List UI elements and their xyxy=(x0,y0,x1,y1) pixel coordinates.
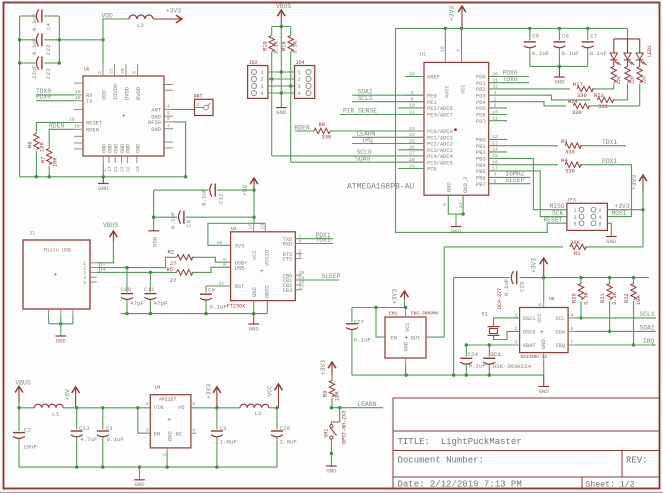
wire C25 gnd side down xyxy=(453,278,455,376)
resistor R24 xyxy=(573,103,591,108)
power VBUS arrow top xyxy=(277,10,285,16)
svg-text:TDX1: TDX1 xyxy=(602,139,617,146)
capacitor C27 xyxy=(351,308,353,323)
svg-text:TX: TX xyxy=(86,99,93,105)
capacitor C10 xyxy=(126,268,128,292)
svg-text:23: 23 xyxy=(409,126,415,132)
svg-text:VBUS: VBUS xyxy=(16,379,31,386)
wire U5 GND pin to rail xyxy=(102,163,104,177)
resistor R1 xyxy=(570,244,588,249)
svg-text:3V3: 3V3 xyxy=(235,244,245,250)
svg-text:3: 3 xyxy=(298,84,301,90)
wire U4 EN tie xyxy=(138,408,151,433)
svg-text:REV:: REV: xyxy=(626,456,648,466)
svg-text:7: 7 xyxy=(571,340,574,346)
svg-text:+: + xyxy=(405,335,409,342)
svg-text:2: 2 xyxy=(261,77,264,83)
svg-text:EN: EN xyxy=(391,335,397,341)
svg-text:C3: C3 xyxy=(220,425,227,432)
window edge line xyxy=(0,491,663,493)
resistor R4 xyxy=(565,162,583,167)
wire EN1 vcc top xyxy=(405,299,406,308)
wire 16MHZ net xyxy=(489,176,531,178)
svg-text:GND: GND xyxy=(276,109,287,116)
svg-text:PB1: PB1 xyxy=(476,144,486,150)
wire cap row 1 xyxy=(20,15,36,17)
wire SDA0 net from R19 to U1 xyxy=(271,52,273,156)
resistor R23 xyxy=(597,97,615,102)
svg-text:Sheet: 1/2: Sheet: 1/2 xyxy=(586,479,635,489)
wire SDA1 net xyxy=(352,94,424,96)
wire PB5 to JP3 SCK xyxy=(489,171,567,217)
capacitor C11 xyxy=(149,272,151,292)
svg-text:3: 3 xyxy=(515,340,518,346)
U6 pins xyxy=(513,317,520,319)
svg-text:23: 23 xyxy=(120,166,126,172)
svg-text:PD1: PD1 xyxy=(476,81,486,87)
wire R2 to U2 xyxy=(192,257,231,262)
svg-text:C2: C2 xyxy=(24,427,31,434)
svg-text:32: 32 xyxy=(125,166,131,172)
svg-text:GND: GND xyxy=(451,228,462,235)
svg-text:R18: R18 xyxy=(282,41,288,51)
svg-text:4.7uF: 4.7uF xyxy=(80,436,98,443)
wire cap row 2 xyxy=(20,39,36,41)
svg-text:C4: C4 xyxy=(45,23,52,30)
svg-text:L3: L3 xyxy=(255,410,262,417)
svg-text:VCCIO: VCCIO xyxy=(264,250,270,266)
svg-text:SLEEP: SLEEP xyxy=(506,177,525,184)
svg-text:VBAT: VBAT xyxy=(523,343,537,349)
resistor R9 xyxy=(329,380,334,396)
svg-text:22uF: 22uF xyxy=(31,65,38,79)
svg-text:6: 6 xyxy=(167,116,170,122)
svg-text:GND: GND xyxy=(151,127,161,133)
svg-text:0.1uF: 0.1uF xyxy=(590,50,608,57)
svg-text:PE3/ADC7: PE3/ADC7 xyxy=(427,113,453,119)
wire U2 gnd stubs xyxy=(253,301,255,314)
wire PB4 to R4 xyxy=(489,164,558,166)
U5 right pin stubs xyxy=(164,83,173,85)
svg-text:PB2: PB2 xyxy=(476,150,486,156)
svg-text:+3V3: +3V3 xyxy=(392,289,399,304)
svg-text:PD6: PD6 xyxy=(476,113,486,119)
wire J1 VBUS xyxy=(97,241,114,263)
svg-text:4: 4 xyxy=(298,91,301,97)
wire +3V3 to LED block xyxy=(627,28,629,39)
svg-text:GND: GND xyxy=(107,144,113,153)
svg-text:GND: GND xyxy=(134,481,145,488)
svg-text:7: 7 xyxy=(167,123,170,129)
wire ANT net xyxy=(173,108,195,110)
power +3V3 arrow switch xyxy=(328,362,336,368)
svg-text:AP2127: AP2127 xyxy=(159,396,176,402)
ground symbol C5-C7 xyxy=(558,66,560,76)
svg-text:PD4: PD4 xyxy=(476,100,486,106)
svg-text:330: 330 xyxy=(322,135,332,141)
U1 left pin stubs and names xyxy=(405,76,424,78)
title block xyxy=(393,398,660,489)
svg-text:SCL1: SCL1 xyxy=(640,311,655,318)
svg-text:1.0uF: 1.0uF xyxy=(280,439,298,446)
wire R23 to LED column xyxy=(612,99,627,101)
svg-text:GND: GND xyxy=(249,325,260,332)
inductor L2 xyxy=(129,15,153,19)
power +3V3 arrow above U1 xyxy=(458,6,466,12)
svg-text:5: 5 xyxy=(442,203,448,206)
wire PD4 to R24 xyxy=(489,102,566,106)
svg-text:3: 3 xyxy=(146,428,149,434)
svg-text:RDEN: RDEN xyxy=(49,122,64,129)
resistor R8 xyxy=(314,128,332,133)
svg-text:IRQ: IRQ xyxy=(643,338,655,345)
svg-text:DSK-3R3H224: DSK-3R3H224 xyxy=(493,363,532,370)
svg-text:Document Number:: Document Number: xyxy=(398,456,484,466)
svg-text:R23: R23 xyxy=(594,93,604,99)
capacitor C4 xyxy=(37,10,39,23)
svg-text:330: 330 xyxy=(572,110,582,116)
wire PIR_SENSE net xyxy=(340,114,424,116)
svg-text:+3V3: +3V3 xyxy=(320,360,327,375)
svg-text:R22: R22 xyxy=(624,293,630,303)
ground symbol C8 C12 xyxy=(148,230,159,232)
svg-text:U5: U5 xyxy=(84,67,90,73)
svg-text:RVDD: RVDD xyxy=(136,87,142,100)
capacitor C6 xyxy=(558,27,561,30)
svg-text:AVCC: AVCC xyxy=(445,85,451,98)
svg-text:+3V3: +3V3 xyxy=(166,8,181,15)
wire +5V column xyxy=(253,190,255,224)
wire header row 2 xyxy=(268,78,295,80)
svg-text:PD5: PD5 xyxy=(476,106,486,112)
wire PD3 to R23 xyxy=(489,95,591,100)
svg-text:16: 16 xyxy=(75,95,81,101)
wire J1 gnd rail xyxy=(49,323,73,325)
svg-text:+3V3: +3V3 xyxy=(449,6,456,21)
wire D- to R2 xyxy=(97,257,177,267)
wire U1 AREF stub xyxy=(405,76,424,78)
svg-text:R9: R9 xyxy=(323,391,329,397)
svg-text:RF50: RF50 xyxy=(148,120,161,126)
wire VBAT row xyxy=(466,344,512,346)
svg-text:0.1uF: 0.1uF xyxy=(107,436,125,443)
wire U1 PD5 stub xyxy=(489,107,507,109)
svg-text:DCX-327: DCX-327 xyxy=(497,288,503,309)
svg-text:C7: C7 xyxy=(590,33,597,40)
svg-text:OSC0: OSC0 xyxy=(523,330,536,336)
wire SCL0 net from R18 to U1 xyxy=(290,52,292,162)
wire TDX0 xyxy=(36,94,74,96)
svg-text:ENC-3009MV: ENC-3009MV xyxy=(411,311,439,317)
wire SLEEP net U2 xyxy=(295,279,339,281)
wire U2 RTS stub xyxy=(295,253,302,255)
wire L3 to VCC xyxy=(269,407,279,409)
svg-text:3.3K: 3.3K xyxy=(274,40,280,54)
svg-text:0.1uF: 0.1uF xyxy=(31,37,38,55)
LED D2 xyxy=(624,53,631,60)
wire header row 1 xyxy=(268,71,295,73)
svg-text:1.0uF: 1.0uF xyxy=(220,439,238,446)
svg-text:+3V3: +3V3 xyxy=(531,258,538,273)
svg-text:1: 1 xyxy=(197,102,200,108)
svg-text:0.1uF: 0.1uF xyxy=(31,13,38,31)
wire TDX0 net xyxy=(489,82,529,84)
wire U1 PD6 stub xyxy=(489,114,507,116)
wire U4 NC stub xyxy=(191,432,197,434)
capacitor C5 xyxy=(528,27,531,30)
wire header row 3 xyxy=(268,85,295,87)
capacitor C22 xyxy=(37,33,39,46)
svg-text:VCC: VCC xyxy=(405,322,411,332)
wire C8 C12 gnd column xyxy=(153,190,155,230)
svg-text:220: 220 xyxy=(617,76,622,84)
wire U1 AVCC drop xyxy=(444,28,446,54)
svg-text:3.3K: 3.3K xyxy=(584,291,590,305)
svg-text:SC1: SC1 xyxy=(490,351,501,358)
resistor R17 xyxy=(577,86,595,91)
svg-text:L1: L1 xyxy=(52,411,59,418)
svg-text:PE1: PE1 xyxy=(427,100,437,106)
LED1 bracket xyxy=(614,38,640,40)
svg-text:8: 8 xyxy=(132,71,138,74)
svg-text:R1: R1 xyxy=(574,251,580,257)
svg-text:PD7: PD7 xyxy=(476,119,486,125)
resistor R3 xyxy=(565,143,583,148)
wire VDD xyxy=(102,18,129,20)
svg-text:3.3K: 3.3K xyxy=(293,40,299,54)
power VBUS arrow J1 xyxy=(110,231,118,237)
svg-text:NC: NC xyxy=(176,432,182,438)
svg-text:27: 27 xyxy=(170,278,176,284)
wire +3V3 feed from EN1 OUT xyxy=(443,247,445,337)
svg-text:PC6: PC6 xyxy=(427,167,437,173)
svg-text:1: 1 xyxy=(261,70,264,76)
wire U1 PD7 stub xyxy=(489,120,507,122)
svg-text:C8: C8 xyxy=(186,220,193,227)
svg-text:R2: R2 xyxy=(168,250,174,256)
svg-text:220: 220 xyxy=(643,76,648,84)
svg-text:330: 330 xyxy=(565,150,575,156)
wire JP3 +3V3 pin2 xyxy=(607,209,643,211)
resistor below LED D1 xyxy=(613,60,615,67)
wire ground rail RF section xyxy=(20,176,186,178)
svg-text:C1: C1 xyxy=(106,425,113,432)
power VBUS arrow power row xyxy=(15,386,23,392)
svg-text:10K: 10K xyxy=(335,391,341,401)
wire R21 to SDA row xyxy=(609,301,611,331)
svg-text:C9: C9 xyxy=(208,287,215,294)
svg-text:GND: GND xyxy=(326,467,337,474)
svg-text:Y1: Y1 xyxy=(482,311,488,317)
power +3V3 arrow RTC xyxy=(540,258,548,264)
wire R4 to PDX1 label and JP3 MOSI xyxy=(580,165,632,217)
wire SLEEP net xyxy=(489,183,531,185)
svg-text:R3: R3 xyxy=(561,139,567,145)
U1 ground pins xyxy=(448,195,463,214)
ic U6 box xyxy=(520,308,569,353)
wire +3V3 rail mid xyxy=(454,277,510,279)
svg-text:3: 3 xyxy=(574,215,577,221)
svg-text:27: 27 xyxy=(170,261,176,267)
wire R7 to ground rail xyxy=(48,166,50,177)
wire R8 to U1 PC0 xyxy=(330,130,424,132)
svg-text:5: 5 xyxy=(167,110,170,116)
svg-text:28: 28 xyxy=(69,117,75,123)
svg-text:R17: R17 xyxy=(573,82,583,88)
capacitor C13 xyxy=(76,408,78,430)
svg-text:5: 5 xyxy=(574,221,577,227)
svg-text:10K: 10K xyxy=(636,295,642,305)
wire header row 4 xyxy=(268,92,295,94)
wire +3V3 top rail xyxy=(396,27,628,29)
ground symbol RF section xyxy=(102,177,104,183)
wire IRQ net left xyxy=(352,143,424,145)
ground symbol RTC rail xyxy=(543,375,545,386)
svg-text:PE2/ADC6: PE2/ADC6 xyxy=(427,106,453,112)
svg-text:GND2: GND2 xyxy=(264,285,270,298)
svg-text:C6: C6 xyxy=(562,33,569,40)
wire U2 CB2 stub xyxy=(295,284,302,286)
svg-text:EN: EN xyxy=(154,432,160,438)
wire RESET net from +3V3 rail side xyxy=(396,28,567,232)
svg-text:C5: C5 xyxy=(532,33,539,40)
svg-text:PE0: PE0 xyxy=(427,93,437,99)
svg-text:DPST-NO-2X3: DPST-NO-2X3 xyxy=(342,411,348,444)
svg-text:VO: VO xyxy=(178,405,184,411)
capacitor C23 xyxy=(37,57,39,70)
wire R3 to TDX1 label xyxy=(580,145,626,147)
svg-text:8: 8 xyxy=(223,262,226,268)
wire LEARN net left xyxy=(352,136,424,138)
resistor R18 xyxy=(288,35,293,51)
capacitor C3 xyxy=(216,408,218,430)
wire LED column 3 down xyxy=(639,84,641,106)
resistor R22 xyxy=(632,276,635,279)
svg-text:GND: GND xyxy=(554,78,565,85)
wire power bottom rail xyxy=(19,466,277,468)
svg-text:SDA0: SDA0 xyxy=(355,156,370,163)
svg-text:C23: C23 xyxy=(45,68,52,79)
svg-text:+: + xyxy=(54,272,58,279)
svg-text:0.1uF: 0.1uF xyxy=(503,278,510,296)
svg-text:L2: L2 xyxy=(137,22,144,29)
svg-text:4: 4 xyxy=(571,313,574,319)
wire header gnd stem xyxy=(280,93,282,108)
wire R19 column top xyxy=(271,27,273,36)
svg-text:10K: 10K xyxy=(53,157,59,167)
svg-text:R6: R6 xyxy=(28,142,34,148)
svg-text:R5: R5 xyxy=(167,267,173,273)
svg-text:33: 33 xyxy=(135,166,141,172)
wire +3V3 to R9 xyxy=(331,375,333,381)
svg-text:PC2/ADC2: PC2/ADC2 xyxy=(427,142,453,148)
svg-text:0.1uF: 0.1uF xyxy=(561,50,579,57)
wire R1 to +3V3 column xyxy=(585,246,643,248)
power +3V3 arrow right xyxy=(639,175,647,181)
svg-text:+3V3: +3V3 xyxy=(206,384,213,399)
svg-text:LEARN: LEARN xyxy=(358,401,377,408)
svg-text:GND: GND xyxy=(404,342,410,352)
wire VBUS to headers xyxy=(272,26,291,28)
svg-text:4: 4 xyxy=(261,91,264,97)
resistor R6 xyxy=(34,133,39,149)
wire U1 PE2 stub xyxy=(398,107,424,109)
svg-text:Date: 2/12/2019 7:13 PM: Date: 2/12/2019 7:13 PM xyxy=(398,479,522,489)
svg-text:LED1: LED1 xyxy=(647,45,653,57)
svg-text:+: + xyxy=(540,329,544,336)
svg-text:U2: U2 xyxy=(231,226,237,232)
svg-text:0.1uF: 0.1uF xyxy=(354,337,372,344)
svg-text:PB5: PB5 xyxy=(476,169,486,175)
wire EN tie to +3V3 xyxy=(376,308,385,338)
wire R22 to IRQ row xyxy=(633,301,635,345)
svg-text:2: 2 xyxy=(298,77,301,83)
power +5V arrow power row xyxy=(72,387,80,393)
J1 pin stubs xyxy=(90,262,97,264)
svg-text:GND: GND xyxy=(606,238,617,245)
wire RESET net to R6 xyxy=(36,122,74,133)
wire PDX1 net U2 xyxy=(295,238,333,240)
wire U6 SDA row xyxy=(575,330,656,332)
svg-text:3.3K: 3.3K xyxy=(612,291,618,305)
supercap SC1 xyxy=(488,345,490,357)
svg-text:21: 21 xyxy=(458,202,464,208)
svg-text:C24: C24 xyxy=(468,351,479,358)
wire LEARN row xyxy=(331,407,383,409)
capacitor C2 xyxy=(18,408,20,431)
svg-text:23: 23 xyxy=(109,68,115,74)
svg-text:18: 18 xyxy=(440,46,446,52)
svg-text:0.1uF: 0.1uF xyxy=(210,304,228,311)
wire R1 row xyxy=(444,246,563,248)
svg-text:PB7: PB7 xyxy=(476,182,486,188)
wire cap bank left rail xyxy=(19,16,21,177)
svg-text:220: 220 xyxy=(631,76,636,84)
svg-text:Micro USB: Micro USB xyxy=(44,248,71,254)
svg-text:GND: GND xyxy=(168,431,174,441)
svg-text:C10: C10 xyxy=(121,286,132,293)
svg-text:4: 4 xyxy=(167,104,170,110)
junction dots cap bank xyxy=(18,38,21,41)
svg-text:J1: J1 xyxy=(29,231,35,237)
svg-text:PC5/ADC5: PC5/ADC5 xyxy=(427,160,453,166)
wire PB3 to JP3 MISO xyxy=(489,158,567,209)
wire VCCIO tie xyxy=(208,223,265,245)
wire U1 PB0 stub xyxy=(489,138,507,140)
svg-text:OSC1: OSC1 xyxy=(523,316,536,322)
capacitor C26 xyxy=(276,408,278,430)
wire rail L1 to U4 xyxy=(63,407,150,409)
svg-text:DS1339U-33: DS1339U-33 xyxy=(521,355,548,360)
svg-text:PD2: PD2 xyxy=(476,87,486,93)
wire R17 to LED column xyxy=(592,88,614,90)
svg-text:6: 6 xyxy=(599,221,602,227)
svg-text:AREF: AREF xyxy=(427,75,440,81)
svg-text:47pF: 47pF xyxy=(130,300,144,307)
wire JP3 GND pin6 xyxy=(607,223,611,236)
svg-text:GND_2: GND_2 xyxy=(463,177,469,193)
svg-text:R20: R20 xyxy=(572,293,578,303)
svg-text:27: 27 xyxy=(409,151,415,157)
svg-text:R7: R7 xyxy=(41,157,47,163)
wire U6 IRQ row xyxy=(575,344,656,346)
resistor R19 xyxy=(269,35,274,51)
svg-text:VBUS: VBUS xyxy=(276,3,291,10)
ground symbol J1 xyxy=(60,324,62,336)
svg-text:330: 330 xyxy=(598,104,608,110)
wire EN1 out xyxy=(426,336,444,338)
power +5V arrow U2 xyxy=(250,178,258,184)
